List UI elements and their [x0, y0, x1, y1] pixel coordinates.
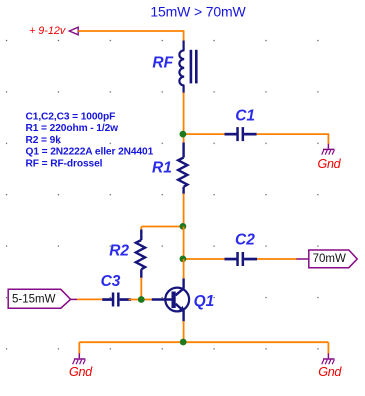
svg-text:Gnd: Gnd	[69, 365, 93, 379]
svg-text:5-15mW: 5-15mW	[12, 294, 56, 306]
svg-text:R2: R2	[109, 242, 129, 259]
inductor RF	[179, 41, 184, 94]
resistor R2	[140, 227, 142, 231]
capacitor C1	[225, 127, 257, 141]
svg-text:R1 = 220ohm - 1/2w: R1 = 220ohm - 1/2w	[26, 123, 119, 134]
power port arrow	[69, 27, 78, 35]
svg-text:Q1 = 2N2222A eller 2N4401: Q1 = 2N2222A eller 2N4401	[26, 147, 154, 158]
node B junction dot	[180, 223, 187, 230]
port lead 5-15mW	[71, 298, 78, 300]
wire top rail	[78, 31, 183, 42]
wire C3 to base	[129, 299, 153, 301]
ground (left)	[73, 353, 86, 364]
svg-text:15mW > 70mW: 15mW > 70mW	[150, 3, 246, 19]
wire node B to R2	[141, 226, 183, 228]
svg-text:Q1: Q1	[194, 293, 215, 310]
wire port to C3	[77, 298, 103, 300]
resistor R1	[178, 143, 187, 195]
svg-text:RF = RF-drossel: RF = RF-drossel	[26, 158, 103, 169]
port 70mW	[309, 250, 357, 268]
port lead 70mW	[297, 258, 309, 260]
wire emitter to bottom rail	[183, 321, 185, 342]
svg-text:+ 9-12v: + 9-12v	[29, 25, 66, 37]
bottom rail wire	[79, 341, 328, 343]
wire R2 to base node	[140, 278, 142, 300]
wire node B to node C	[183, 227, 185, 260]
transistor Q1	[152, 279, 189, 322]
transistor Q1 emitter arrow	[178, 306, 185, 312]
wire node A to C1	[184, 133, 225, 135]
wire C1 to gnd corner	[257, 134, 329, 144]
node A junction dot	[180, 131, 187, 138]
inductor RF core bars	[190, 50, 198, 84]
svg-text:C1: C1	[235, 108, 255, 125]
bottom rail junction dot	[180, 339, 187, 346]
svg-text:70mW: 70mW	[313, 253, 346, 265]
wire node C to collector	[183, 259, 185, 279]
ground (C1)	[322, 144, 335, 155]
svg-text:RF: RF	[152, 55, 173, 72]
svg-text:R2 = 9k: R2 = 9k	[26, 135, 62, 146]
wire R1 to node B	[183, 194, 185, 227]
svg-text:Gnd: Gnd	[318, 157, 342, 171]
svg-text:Gnd: Gnd	[318, 365, 342, 379]
node base junction dot	[138, 296, 145, 303]
info text block	[26, 111, 154, 169]
capacitor C3	[102, 293, 131, 307]
wire RF to node A	[183, 93, 185, 144]
svg-text:C3: C3	[101, 273, 121, 290]
port 5-15mW	[8, 289, 70, 308]
node C junction dot	[180, 256, 187, 263]
ground (right)	[322, 353, 335, 364]
svg-text:C1,C2,C3 = 1000pF: C1,C2,C3 = 1000pF	[26, 111, 116, 122]
wire rail to left ground	[78, 342, 80, 354]
svg-text:R1: R1	[152, 159, 172, 176]
wire rail to right ground	[327, 342, 329, 354]
svg-text:C2: C2	[235, 232, 255, 249]
capacitor C2	[225, 252, 258, 266]
wire C2 to port	[257, 258, 297, 260]
wire node C to C2	[184, 258, 225, 260]
